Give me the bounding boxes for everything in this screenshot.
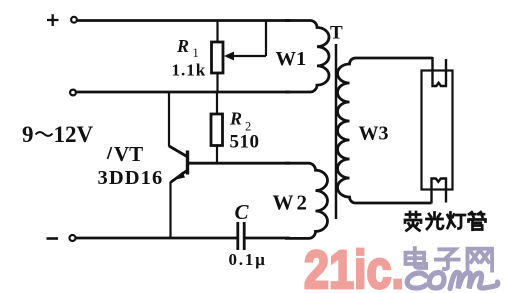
wire emitter lead [169, 182, 171, 239]
svg-text:9: 9 [22, 122, 34, 147]
svg-text:0.1µ: 0.1µ [229, 250, 267, 269]
terminal input + [71, 17, 77, 23]
wire R2 bottom lead [216, 146, 218, 164]
label C [229, 200, 267, 269]
resistor R1 [212, 42, 224, 73]
transistor VT emitter arrow [174, 172, 186, 181]
svg-text:W2: W2 [273, 191, 311, 215]
transistor VT collector diagonal [169, 146, 187, 157]
char dian [405, 248, 426, 268]
svg-text:12V: 12V [54, 122, 94, 147]
minus label [47, 237, 59, 240]
svg-text:VT: VT [114, 142, 143, 166]
watermark dianziwang (Chinese) [405, 248, 492, 271]
watermark com script [407, 272, 498, 288]
label fluorescent lamp (Chinese) [405, 212, 486, 231]
wire bottom rail right [246, 237, 291, 240]
char guan [469, 212, 486, 230]
char guang [427, 213, 444, 230]
tube top filament [433, 57, 447, 86]
wire top rail [78, 19, 291, 22]
wiper arrow of R1 rheostat [224, 21, 266, 61]
capacitor C [238, 222, 244, 250]
plus terminal label [47, 14, 59, 26]
winding W3 [338, 58, 433, 203]
svg-text:R: R [176, 36, 189, 56]
svg-text:T: T [330, 23, 343, 44]
svg-text:1.1k: 1.1k [172, 61, 207, 80]
fluorescent tube outline [422, 71, 453, 190]
svg-text:510: 510 [230, 132, 260, 153]
svg-text:C: C [235, 200, 250, 224]
wire collector lead [168, 92, 170, 147]
transistor VT emitter diagonal [171, 171, 187, 183]
winding W2 [285, 163, 328, 238]
svg-text:W3: W3 [359, 123, 389, 145]
resistor R2 [211, 114, 223, 146]
svg-text:3DD16: 3DD16 [98, 167, 164, 189]
wire base lead [189, 162, 290, 165]
char zi [436, 249, 459, 269]
wire bottom rail left [76, 237, 237, 240]
tube bottom filament [432, 179, 447, 204]
char deng [448, 213, 466, 229]
terminal minus [70, 235, 76, 241]
label 9~12V [22, 122, 94, 147]
char ying [405, 212, 421, 231]
char wang [467, 249, 492, 271]
wire R1 top lead [216, 21, 218, 43]
svg-text:R: R [229, 109, 242, 129]
wire R2 top lead [216, 92, 218, 114]
wire mid rail [77, 91, 291, 94]
terminal input mid [70, 90, 76, 96]
wire R1 bottom lead [216, 73, 218, 92]
winding W1 [285, 21, 329, 93]
label VT [98, 142, 164, 189]
transformer core [335, 44, 338, 219]
label R1 [172, 36, 207, 80]
svg-text:1: 1 [193, 46, 199, 60]
svg-text:21ic.: 21ic. [304, 240, 404, 293]
transistor VT base bar [186, 151, 189, 175]
svg-text:W1: W1 [276, 48, 307, 70]
label R2 [229, 109, 260, 153]
